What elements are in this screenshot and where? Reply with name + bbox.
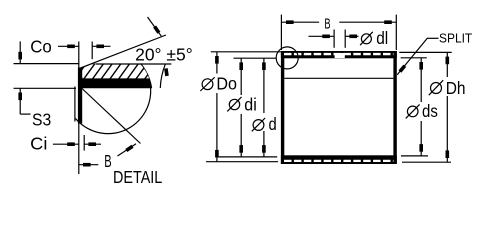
svg-text:Do: Do: [216, 74, 237, 94]
svg-text:SPLIT: SPLIT: [439, 31, 472, 46]
svg-text:20° ±5°: 20° ±5°: [135, 44, 193, 64]
svg-text:Ci: Ci: [30, 134, 47, 154]
svg-text:B: B: [324, 17, 330, 33]
svg-text:Co: Co: [30, 37, 52, 57]
svg-text:S3: S3: [32, 110, 51, 130]
svg-text:di: di: [244, 94, 256, 114]
svg-text:DETAIL: DETAIL: [113, 167, 163, 187]
svg-text:d: d: [269, 114, 277, 134]
svg-text:Dh: Dh: [446, 78, 466, 98]
svg-text:B: B: [104, 151, 111, 171]
svg-text:ds: ds: [422, 101, 438, 121]
svg-text:dl: dl: [376, 28, 388, 48]
